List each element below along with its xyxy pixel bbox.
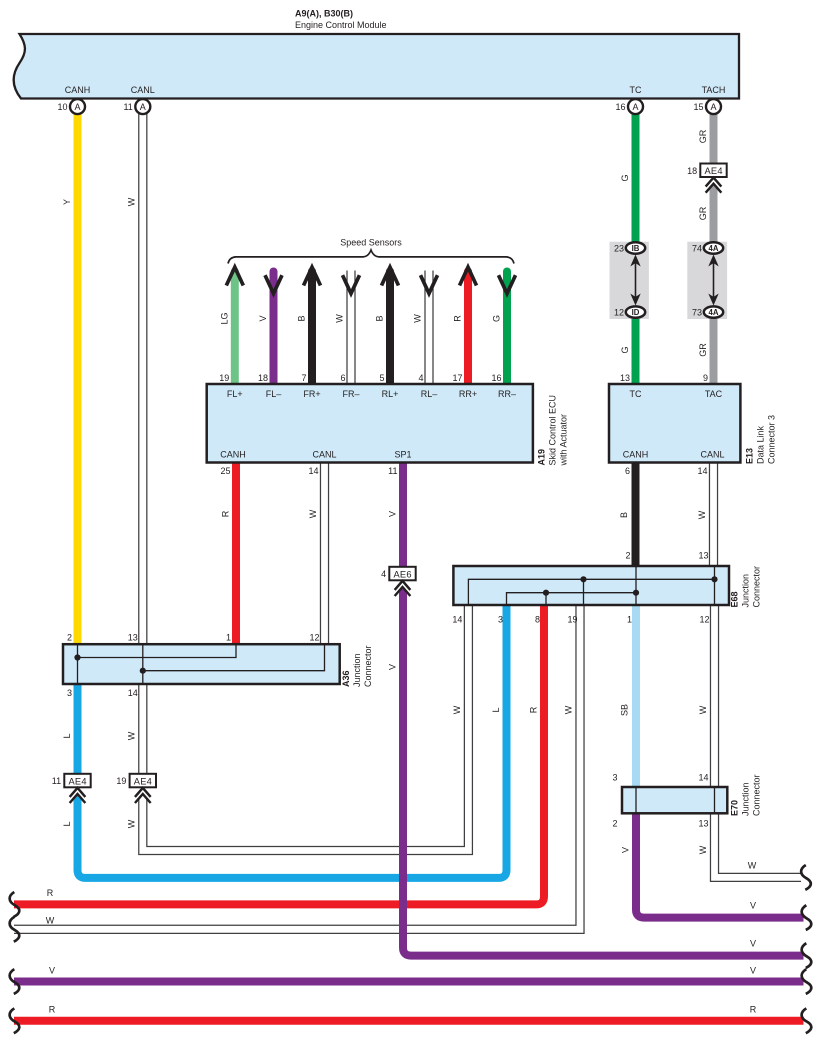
- svg-text:16: 16: [615, 102, 625, 112]
- svg-text:R: R: [529, 706, 539, 713]
- E68 internal bus pin19 tap: [583, 579, 585, 605]
- svg-text:W: W: [335, 314, 345, 323]
- wire W (E68 pin 19 to left break): [14, 605, 580, 929]
- svg-text:Connector: Connector: [752, 566, 762, 608]
- break symbol: [802, 905, 812, 930]
- A36 internal bus 1: [78, 644, 237, 657]
- svg-text:Connector 3: Connector 3: [767, 415, 777, 464]
- svg-text:R: R: [47, 888, 54, 898]
- svg-text:A: A: [710, 102, 716, 112]
- svg-text:B: B: [375, 315, 385, 321]
- svg-text:V: V: [49, 965, 55, 975]
- E68 internal bus pin2-pin1: [635, 566, 637, 605]
- svg-text:14: 14: [697, 466, 707, 476]
- speed sensor wire FL- (V): [270, 272, 278, 385]
- svg-text:Junction: Junction: [352, 653, 362, 687]
- svg-text:G: G: [620, 174, 630, 181]
- svg-text:15: 15: [693, 102, 703, 112]
- svg-text:W: W: [126, 819, 136, 828]
- svg-text:11: 11: [123, 102, 132, 112]
- svg-text:G: G: [492, 315, 502, 322]
- svg-text:13: 13: [128, 633, 138, 643]
- wire G (TC, ECM pin 16 to connector IB): [632, 113, 640, 243]
- svg-text:Skid Control ECU: Skid Control ECU: [548, 395, 558, 466]
- svg-text:Y: Y: [62, 199, 72, 205]
- skid control ECU A19 box: [207, 384, 533, 463]
- speed sensor wire RR+ (R): [464, 272, 472, 385]
- svg-text:3: 3: [67, 688, 72, 698]
- svg-text:12: 12: [699, 615, 709, 625]
- svg-text:W: W: [413, 314, 423, 323]
- svg-text:19: 19: [567, 615, 577, 625]
- wire W (E13 CANL pin 14 to E68 pin 13): [709, 463, 718, 567]
- svg-text:13: 13: [620, 373, 630, 383]
- svg-text:A: A: [74, 102, 80, 112]
- wire R full width (bottom, left break to right break): [14, 1017, 804, 1025]
- svg-text:11: 11: [388, 466, 397, 476]
- junction connector A36 box: [63, 644, 340, 684]
- svg-text:A: A: [632, 102, 638, 112]
- svg-text:TC: TC: [630, 389, 642, 399]
- sensor arrow: [226, 267, 243, 285]
- svg-text:1: 1: [627, 615, 632, 625]
- svg-text:G: G: [620, 346, 630, 353]
- svg-text:W: W: [126, 197, 136, 206]
- wire Y (CANH, ECM pin 10 to A36 pin 2): [74, 113, 82, 644]
- svg-text:V: V: [621, 847, 631, 853]
- svg-text:18: 18: [687, 166, 697, 176]
- svg-text:GR: GR: [698, 206, 708, 220]
- svg-text:AE4: AE4: [134, 777, 152, 787]
- svg-text:GR: GR: [698, 343, 708, 357]
- svg-text:RR+: RR+: [459, 389, 477, 399]
- junction connector E68 box: [453, 566, 729, 605]
- svg-text:B: B: [297, 315, 307, 321]
- speed sensor wire RL+ (B): [386, 272, 394, 385]
- svg-text:3: 3: [498, 615, 503, 625]
- svg-text:73: 73: [692, 308, 702, 318]
- svg-text:3: 3: [612, 773, 617, 783]
- svg-text:E13: E13: [745, 448, 755, 464]
- svg-text:17: 17: [452, 373, 462, 383]
- wire W (E68 pin 12 to E70 pin 14): [710, 605, 719, 787]
- svg-text:Connector: Connector: [363, 645, 373, 687]
- svg-text:Connector: Connector: [752, 774, 762, 816]
- connector AE4 pin 19: [135, 782, 151, 803]
- svg-text:AE4: AE4: [69, 777, 87, 787]
- break symbol: [802, 1008, 812, 1033]
- svg-text:12: 12: [309, 633, 319, 643]
- svg-text:2: 2: [625, 551, 630, 561]
- svg-text:ID: ID: [632, 308, 640, 317]
- svg-text:V: V: [258, 315, 268, 321]
- inter-connector arrow: [635, 263, 637, 298]
- break symbol: [10, 892, 20, 917]
- sensor arrow: [382, 267, 399, 285]
- break symbol: [802, 943, 812, 968]
- svg-text:74: 74: [692, 244, 702, 254]
- svg-text:FR+: FR+: [303, 389, 320, 399]
- shield block IB/ID background: [610, 242, 649, 319]
- svg-text:V: V: [388, 664, 398, 670]
- svg-text:CANH: CANH: [623, 450, 649, 460]
- svg-text:AE4: AE4: [705, 166, 723, 176]
- svg-text:13: 13: [698, 819, 708, 829]
- svg-text:Data Link: Data Link: [756, 425, 766, 464]
- svg-text:Speed Sensors: Speed Sensors: [340, 238, 402, 248]
- junction connector E70 box: [622, 787, 727, 813]
- break symbol: [802, 969, 812, 994]
- wire B (E13 CANH pin 6 to E68 pin 2): [632, 463, 640, 567]
- speed sensor wire RL- (W): [424, 271, 426, 385]
- wire W (A36 pin 14 to E68 pin 14): [143, 605, 469, 851]
- svg-text:FL+: FL+: [227, 389, 243, 399]
- wire GR (TACH, ECM pin 15 to connector 4A pin 74): [710, 113, 718, 243]
- sensor arrow: [343, 275, 360, 293]
- svg-text:B: B: [619, 512, 629, 518]
- svg-text:4A: 4A: [709, 244, 719, 253]
- svg-text:RR–: RR–: [498, 389, 516, 399]
- wire V (E70 pin 2 to right break): [636, 813, 804, 917]
- svg-text:V: V: [750, 901, 756, 911]
- svg-text:R: R: [221, 510, 231, 517]
- break symbol: [10, 969, 20, 994]
- data link connector 3 E13 box: [609, 384, 740, 463]
- wire R (A19 CANH pin 25 to A36 pin 1): [232, 463, 240, 645]
- wire SB (E68 pin 1 to E70 pin 3): [632, 605, 640, 787]
- svg-text:14: 14: [698, 773, 708, 783]
- svg-text:W: W: [46, 915, 55, 925]
- svg-text:2: 2: [67, 633, 72, 643]
- wire W (CANL, ECM pin 11 to A36 pin 13): [138, 113, 147, 644]
- svg-text:CANH: CANH: [65, 85, 91, 95]
- svg-text:with Actuator: with Actuator: [559, 414, 569, 467]
- svg-text:14: 14: [308, 466, 318, 476]
- svg-text:CANL: CANL: [700, 450, 724, 460]
- svg-text:W: W: [698, 845, 708, 854]
- E70 internal terminal: [714, 787, 716, 813]
- svg-text:W: W: [452, 705, 462, 714]
- svg-text:E70: E70: [730, 800, 740, 816]
- inter-connector arrow: [713, 263, 715, 298]
- svg-text:25: 25: [220, 466, 230, 476]
- svg-text:2: 2: [612, 819, 617, 829]
- wire GR (connector 4A pin 73 to E13 pin 9): [710, 317, 718, 384]
- break symbol: [10, 917, 20, 942]
- E70 internal terminal: [635, 787, 637, 813]
- svg-text:RL+: RL+: [382, 389, 399, 399]
- svg-text:CANL: CANL: [131, 85, 155, 95]
- svg-text:12: 12: [614, 308, 624, 318]
- sensor arrow: [265, 275, 282, 293]
- svg-text:16: 16: [491, 373, 501, 383]
- svg-text:R: R: [453, 315, 463, 322]
- E68 junction node: [633, 590, 639, 596]
- svg-text:FL–: FL–: [266, 389, 282, 399]
- wire R (E68 pin 8 to left break): [14, 605, 544, 904]
- svg-text:A: A: [140, 102, 146, 112]
- ECM box A9(A) B30(B): [14, 34, 739, 99]
- sensor arrow: [304, 267, 321, 285]
- svg-text:W: W: [698, 705, 708, 714]
- speed sensor wire FR+ (B): [308, 272, 316, 385]
- E68 junction node: [711, 576, 717, 582]
- svg-text:W: W: [308, 509, 318, 518]
- wire G (connector ID to E13 pin 13): [632, 317, 640, 384]
- svg-text:19: 19: [116, 776, 126, 786]
- svg-text:6: 6: [340, 373, 345, 383]
- wire W (E70 pin 13 to right break): [715, 813, 802, 877]
- speed sensor wire FR- (W): [346, 271, 348, 385]
- E68 junction node: [543, 590, 549, 596]
- E68 internal bus pin13-pin12: [714, 566, 716, 605]
- svg-text:V: V: [750, 965, 756, 975]
- svg-text:E68: E68: [730, 591, 740, 607]
- svg-text:L: L: [62, 733, 72, 738]
- svg-text:V: V: [750, 939, 756, 949]
- svg-text:Engine Control Module: Engine Control Module: [295, 20, 387, 30]
- A36 internal bus 2: [143, 644, 325, 671]
- svg-text:CANL: CANL: [312, 450, 336, 460]
- sensor arrow: [421, 275, 438, 293]
- E68 internal bus 1: [468, 579, 714, 605]
- svg-text:14: 14: [452, 615, 462, 625]
- svg-text:A9(A), B30(B): A9(A), B30(B): [295, 9, 353, 19]
- svg-text:L: L: [491, 707, 501, 712]
- break symbol: [801, 865, 811, 890]
- svg-text:GR: GR: [698, 129, 708, 143]
- sensor arrow: [499, 275, 516, 293]
- Speed Sensors brace: [228, 250, 514, 264]
- svg-text:V: V: [388, 511, 398, 517]
- A36 internal bus pin13-pin14: [142, 644, 144, 684]
- svg-text:L: L: [62, 821, 72, 826]
- svg-text:TC: TC: [630, 85, 642, 95]
- svg-text:LG: LG: [219, 312, 229, 324]
- svg-text:IB: IB: [632, 244, 640, 253]
- svg-text:R: R: [49, 1004, 56, 1014]
- svg-text:CANH: CANH: [220, 450, 246, 460]
- break symbol: [10, 1008, 20, 1033]
- svg-text:23: 23: [614, 244, 624, 254]
- A36 junction node: [140, 668, 146, 674]
- svg-text:W: W: [697, 510, 707, 519]
- svg-text:6: 6: [625, 466, 630, 476]
- speed sensor wire RR- (G): [503, 272, 511, 385]
- svg-text:1: 1: [226, 633, 231, 643]
- svg-text:TACH: TACH: [702, 85, 726, 95]
- svg-text:14: 14: [128, 688, 138, 698]
- svg-text:13: 13: [698, 551, 708, 561]
- svg-text:AE6: AE6: [394, 570, 412, 580]
- svg-text:4: 4: [418, 373, 423, 383]
- A36 junction node: [74, 654, 80, 660]
- svg-text:SB: SB: [620, 704, 630, 716]
- svg-text:W: W: [564, 705, 574, 714]
- svg-text:4: 4: [381, 569, 386, 579]
- svg-text:SP1: SP1: [394, 450, 411, 460]
- shield block 4A background: [687, 242, 727, 319]
- svg-text:19: 19: [219, 373, 229, 383]
- svg-text:11: 11: [52, 776, 61, 786]
- svg-text:A36: A36: [341, 670, 351, 687]
- svg-text:W: W: [126, 731, 136, 740]
- svg-text:Junction: Junction: [741, 574, 751, 608]
- svg-text:W: W: [748, 861, 757, 871]
- connector AE6 pin 4: [395, 575, 411, 596]
- svg-text:10: 10: [57, 102, 67, 112]
- E68 internal bus pin8 tap: [545, 593, 547, 605]
- wire L (A36 pin 3 to E68 pin 3): [78, 605, 507, 878]
- E68 junction node: [580, 576, 586, 582]
- svg-text:FR–: FR–: [342, 389, 359, 399]
- svg-text:7: 7: [301, 373, 306, 383]
- svg-text:4A: 4A: [709, 308, 719, 317]
- connector AE4 pin 11: [70, 782, 86, 803]
- speed sensor wire FL+ (LG): [231, 272, 239, 385]
- sensor arrow: [460, 267, 477, 285]
- E68 internal bus 2: [507, 593, 637, 605]
- wire W (A19 CANL pin 14 to A36 pin 12): [320, 463, 329, 645]
- svg-text:9: 9: [703, 373, 708, 383]
- connector AE4 pin 18: [706, 172, 722, 193]
- svg-text:A19: A19: [537, 449, 547, 466]
- wire V (A19 SP1 pin 11 to right break): [403, 463, 804, 956]
- A36 internal bus pin2-pin3: [77, 644, 79, 684]
- svg-text:Junction: Junction: [741, 782, 751, 816]
- svg-text:8: 8: [535, 615, 540, 625]
- svg-text:TAC: TAC: [705, 389, 723, 399]
- svg-text:5: 5: [379, 373, 384, 383]
- svg-text:18: 18: [258, 373, 268, 383]
- svg-text:R: R: [750, 1004, 757, 1014]
- svg-text:RL–: RL–: [421, 389, 438, 399]
- wire V full width (bottom, left break to right break): [14, 978, 804, 986]
